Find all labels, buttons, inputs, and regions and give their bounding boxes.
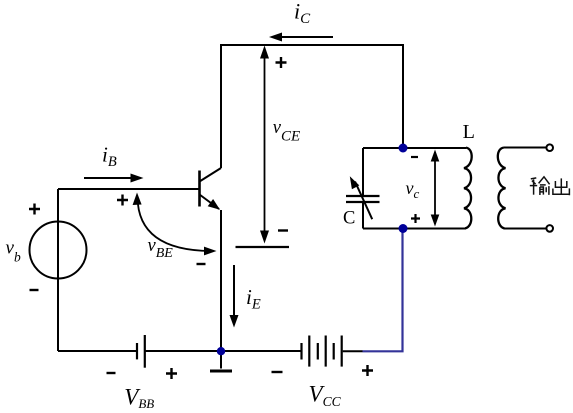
svg-text:L: L [463,122,475,143]
svg-text:C: C [343,209,355,229]
